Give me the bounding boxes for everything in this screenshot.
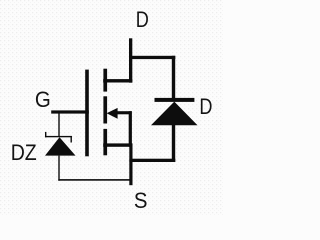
svg-text:D: D <box>136 8 149 32</box>
wire: top branch horizontal from drain node to body diode <box>129 56 175 59</box>
diode D cathode bar <box>155 98 195 102</box>
svg-text:S: S <box>134 188 148 213</box>
transistor Q1 channel segment middle <box>103 96 107 123</box>
wire: diode anode vertical <box>172 124 175 162</box>
wire: gate lead horizontal <box>51 110 89 113</box>
label D (body diode, right) <box>199 95 212 119</box>
zener DZ cathode bar <box>45 136 72 137</box>
wire: drain lead vertical from D down to MOSFET drain stub <box>129 38 132 82</box>
zener DZ cathode bar left hook (up) <box>45 132 46 137</box>
wire: zener tap vertical from gate lead <box>58 114 59 137</box>
label G (gate terminal) <box>35 87 51 112</box>
diode D triangle (anode, pointing up) <box>151 102 198 126</box>
svg-text:G: G <box>35 87 51 112</box>
transistor Q1 body arrow head (points to channel) <box>107 108 118 119</box>
transistor Q1 source stub <box>103 143 132 146</box>
wire: bottom horizontal from diode anode to source node <box>129 159 175 162</box>
wire: zener anode vertical down <box>58 156 59 181</box>
transistor Q1 body arrow shaft <box>111 111 132 114</box>
label S (source terminal, bottom) <box>134 188 148 213</box>
wire: source lead vertical down to S <box>129 143 132 185</box>
wire: zener bottom horizontal to source node <box>58 179 130 181</box>
wire: diode cathode vertical drop <box>172 56 175 99</box>
wire: body-to-source corner vertical <box>129 111 132 147</box>
zener DZ triangle (anode, pointing up) <box>45 137 76 155</box>
transistor Q1 channel segment top <box>103 69 107 92</box>
transistor Q1 drain stub <box>103 79 132 82</box>
transistor Q1 channel segment bottom <box>103 129 107 155</box>
label DZ (gate zener) <box>11 141 37 165</box>
transistor Q1 gate bar <box>85 70 89 157</box>
svg-text:DZ: DZ <box>11 141 37 165</box>
label D (drain terminal, top) <box>136 8 149 32</box>
zener DZ cathode bar right hook (down) <box>71 136 72 143</box>
svg-text:D: D <box>199 95 212 119</box>
